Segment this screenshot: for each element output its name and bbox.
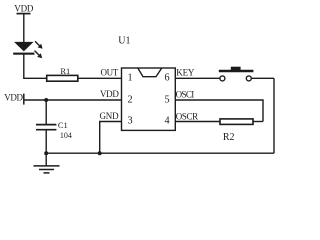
svg-text:VDD: VDD (4, 93, 23, 103)
svg-text:GND: GND (99, 111, 119, 121)
svg-text:OSCR: OSCR (176, 111, 198, 121)
svg-text:VDD: VDD (100, 89, 119, 99)
svg-text:104: 104 (60, 131, 72, 140)
svg-text:R1: R1 (60, 66, 70, 76)
svg-text:2: 2 (127, 94, 132, 105)
svg-text:OUT: OUT (101, 67, 119, 77)
svg-text:C1: C1 (58, 120, 68, 130)
svg-text:5: 5 (164, 94, 169, 105)
svg-text:6: 6 (164, 73, 169, 84)
svg-text:1: 1 (127, 73, 132, 84)
svg-text:OSCI: OSCI (176, 89, 195, 99)
svg-text:U1: U1 (118, 35, 130, 46)
svg-text:KEY: KEY (176, 67, 195, 77)
svg-text:VDD: VDD (14, 3, 34, 13)
svg-text:4: 4 (164, 116, 169, 127)
svg-text:R2: R2 (223, 132, 235, 143)
svg-text:3: 3 (127, 116, 132, 127)
